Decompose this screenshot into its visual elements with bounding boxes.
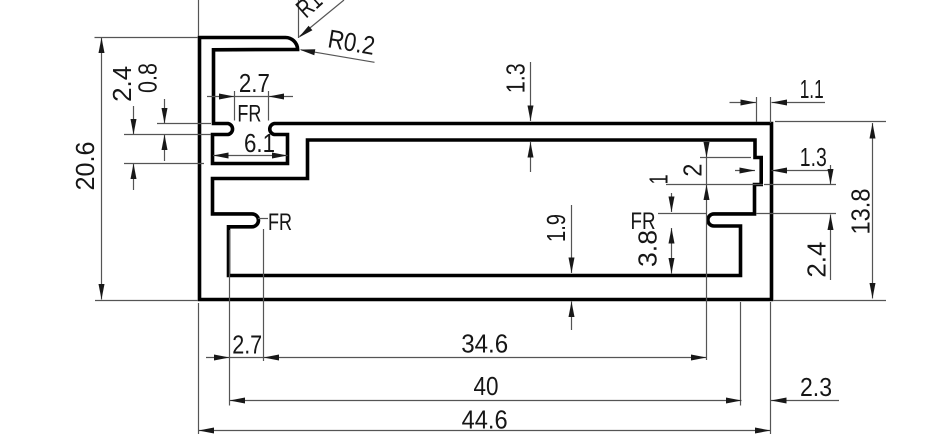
arrow 20.6 top xyxy=(99,38,105,54)
1 dim lower / 3.8 dim xyxy=(671,228,673,274)
arrow 6.1 left xyxy=(213,153,229,159)
0.8 upper tail xyxy=(164,99,166,124)
arrow 2 lower (up) xyxy=(704,185,710,201)
arrow 44.6 right xyxy=(755,428,771,434)
svg-text:1.3: 1.3 xyxy=(501,63,531,93)
cropped ext at flange tip xyxy=(298,0,300,38)
svg-text:1.9: 1.9 xyxy=(541,214,571,242)
R0.2 leader xyxy=(301,50,375,63)
svg-text:2.7: 2.7 xyxy=(232,330,262,360)
svg-text:FR: FR xyxy=(237,101,261,128)
svg-text:2: 2 xyxy=(678,164,708,177)
svg-text:3.8: 3.8 xyxy=(633,230,663,267)
40 right ext xyxy=(740,302,742,406)
FR right leader xyxy=(658,213,707,215)
inner cavity boundary: ceiling step, right wall notch, right FR finger, bottom web top, left FR finger xyxy=(213,140,762,276)
1.3R right tail xyxy=(772,170,830,172)
1.3R left tail xyxy=(735,170,755,172)
2.7 top dim line xyxy=(207,96,293,98)
44.6 left ext xyxy=(198,303,200,434)
13.8 dim line xyxy=(872,123,874,299)
svg-text:34.6: 34.6 xyxy=(461,329,508,359)
2.7 top right ext xyxy=(268,91,270,121)
1 dim upper xyxy=(671,193,673,212)
13.8 top ext xyxy=(775,121,886,123)
ext lip bottom xyxy=(124,134,211,136)
40 dim line xyxy=(230,400,742,402)
0.8 lower tail xyxy=(164,135,166,162)
2.4R lower tail xyxy=(830,215,832,281)
ext slot floor xyxy=(124,163,204,165)
arrow 1.9 lower (up) xyxy=(569,302,575,318)
2.4R upper tail xyxy=(830,165,832,185)
svg-text:44.6: 44.6 xyxy=(462,404,508,434)
arrow 40 left xyxy=(230,398,246,404)
arrow 2.7T right xyxy=(269,94,285,100)
arrow 2 upper (down) xyxy=(704,142,710,158)
svg-text:2.4: 2.4 xyxy=(802,242,832,278)
2.3 dim line xyxy=(771,400,839,402)
arrow 2.4L upper (down) xyxy=(131,119,137,135)
2.4R bottom ext xyxy=(764,184,836,186)
arrow 13.8 top xyxy=(870,123,876,139)
svg-text:6.1: 6.1 xyxy=(244,128,275,158)
arrow 6.1 right xyxy=(272,153,288,159)
ext notch bottom xyxy=(666,184,763,186)
2.7B right ext xyxy=(263,229,265,361)
2.7B + 34.6 dim line xyxy=(206,357,707,359)
arrow 13.8 bottom xyxy=(870,283,876,299)
20.6 dim line xyxy=(101,38,103,300)
arrow 20.6 bottom xyxy=(99,284,105,300)
arrow 0.8 upper (down) xyxy=(162,108,168,124)
arrow 1.3R left xyxy=(740,168,756,174)
1.3 top dim upper xyxy=(530,62,532,121)
2 dim line + 34.6 ext xyxy=(706,147,708,360)
1.1 right ext xyxy=(770,97,772,123)
R1 leader xyxy=(300,0,345,37)
2.4L upper tail xyxy=(133,106,135,135)
arrow 40 right / 2.3 left xyxy=(726,398,742,404)
20.6 top extension xyxy=(95,37,198,39)
1.1 right tail xyxy=(772,102,826,104)
svg-text:13.8: 13.8 xyxy=(846,189,876,235)
1.9 upper xyxy=(571,205,573,273)
ext notch top xyxy=(700,157,751,159)
svg-text:0.8: 0.8 xyxy=(133,63,163,93)
20.6 bottom extension xyxy=(95,300,198,302)
arrow 1.3T lower (up) xyxy=(528,142,534,158)
2.7 top left ext xyxy=(234,91,236,121)
arrow 2.3 right xyxy=(771,398,787,404)
arrow R0.2 xyxy=(300,49,316,55)
1.3 top dim lower xyxy=(530,142,532,172)
arrow 1.3T upper (down) xyxy=(528,106,534,122)
arrow 1 upper (down) xyxy=(669,197,675,213)
svg-text:40: 40 xyxy=(474,371,499,401)
svg-text:2.7: 2.7 xyxy=(239,68,270,98)
svg-text:20.6: 20.6 xyxy=(70,142,100,191)
arrow 2.7B left xyxy=(214,355,230,361)
2.7B/40 left ext xyxy=(229,230,231,406)
svg-text:2.3: 2.3 xyxy=(800,372,832,402)
FR left leader xyxy=(258,218,268,220)
arrow 2.7T left xyxy=(219,94,235,100)
arrow 44.6 left xyxy=(199,428,215,434)
13.8 bottom ext xyxy=(774,300,887,302)
2.4R top ext xyxy=(756,213,836,215)
svg-text:1.3: 1.3 xyxy=(800,142,827,172)
1.1 left ext xyxy=(756,97,758,122)
arrow 1 lower / 3.8 upper (up) xyxy=(669,228,675,244)
svg-text:FR: FR xyxy=(268,209,292,236)
cropped ext above top-left corner xyxy=(198,0,200,36)
arrow R1 xyxy=(299,26,313,38)
44.6 right ext xyxy=(770,302,772,434)
arrow 2.7B right / 34.6 left xyxy=(264,355,280,361)
arrow 2.4L lower (up) xyxy=(131,164,137,180)
svg-text:1: 1 xyxy=(644,174,674,184)
ext lip top xyxy=(157,123,211,125)
arrow 0.8 lower (up) xyxy=(162,135,168,151)
arrow 2.4R lower (up) xyxy=(828,215,834,231)
svg-text:R1: R1 xyxy=(290,0,328,23)
arrow 3.8 lower (down) xyxy=(669,258,675,274)
arrow 1.1 right xyxy=(772,100,788,106)
1.1 left tail xyxy=(730,102,757,104)
2.4L lower tail xyxy=(133,164,135,191)
arrow 34.6 right xyxy=(691,355,707,361)
profile outer boundary: left wall, top flange with R1 tip, screw-slot lips, top web, right wall, bottom web xyxy=(200,37,772,299)
arrow 1.9 upper (down) xyxy=(569,258,575,274)
1.9 lower xyxy=(571,302,573,331)
arrow 1.1 left xyxy=(741,100,757,106)
44.6 dim line xyxy=(199,430,771,432)
arrow 1.3R right xyxy=(772,168,788,174)
6.1 dim line xyxy=(213,155,288,157)
arrow 2.4R upper (down) xyxy=(828,169,834,185)
svg-text:1.1: 1.1 xyxy=(800,74,824,104)
